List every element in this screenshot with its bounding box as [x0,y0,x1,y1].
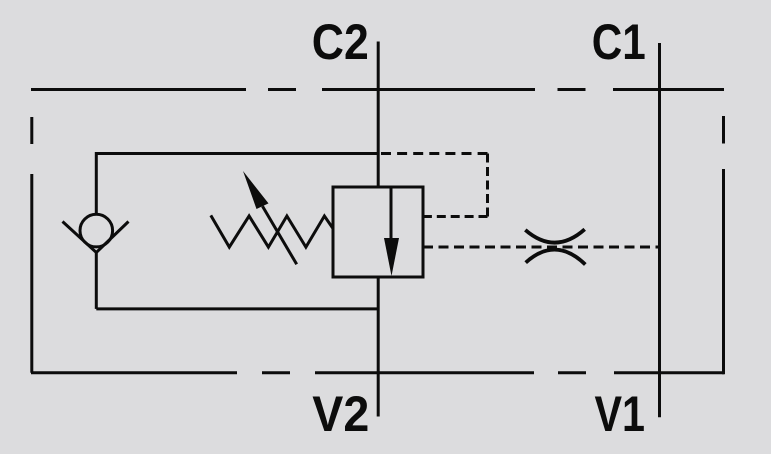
flow path arrow shaft inside valve body [390,187,393,242]
svg-text:V2: V2 [312,386,369,442]
port line C1-V1 [658,43,661,417]
wire: check-valve branch top horizontal [96,152,378,155]
port line C2-V2 (upper segment) [377,42,380,188]
svg-text:V1: V1 [595,386,646,442]
port line C2-V2 (lower segment) [377,277,380,417]
orifice upper arc [525,229,584,242]
wire: check-valve branch bottom horizontal [96,307,378,310]
pilot line loop bottom (dashed) [423,215,488,218]
enclosure boundary bottom edge (chain line) [31,371,724,374]
orifice lower arc [526,250,586,265]
wire: check-valve branch lower vertical [95,253,98,309]
svg-text:C1: C1 [592,14,646,70]
check valve CV1 seat [63,222,129,253]
svg-text:C2: C2 [312,14,369,70]
enclosure boundary top edge (chain line) [31,88,724,91]
adjustment arrowhead [243,171,269,209]
flow path arrowhead [384,238,399,276]
enclosure boundary left edge (chain line) [30,117,33,373]
wire: check-valve branch upper vertical [95,152,98,215]
pilot line to C1 (dashed) [423,246,660,249]
pilot line loop top (dashed) [381,152,488,155]
adjustment arrow shaft [263,206,297,264]
relief valve body (square envelope) [333,187,423,277]
check valve CV1 ball [80,214,113,247]
adjustable spring zigzag [211,215,333,247]
enclosure boundary right edge (chain line) [722,116,725,374]
pilot line loop right vertical (dashed) [486,154,489,217]
